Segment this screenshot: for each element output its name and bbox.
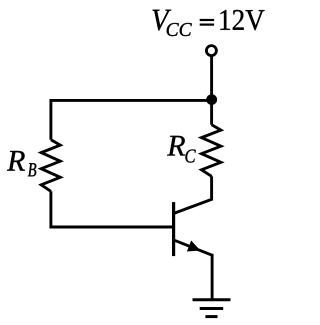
- transistor Q1 emitter arrow: [187, 241, 200, 252]
- resistor RB: [41, 140, 60, 192]
- wire RB bottom to base: [51, 191, 172, 227]
- label RC: [167, 136, 196, 163]
- resistor RC: [202, 125, 221, 177]
- wire RC bottom to collector: [175, 176, 212, 213]
- node (junction dot): [206, 94, 217, 105]
- transistor Q1 emitter: [175, 240, 213, 255]
- wire terminal to node: [210, 56, 213, 100]
- terminal Vcc (open circle): [206, 46, 216, 56]
- wire top horizontal and left vertical: [51, 100, 212, 139]
- wire node to RC: [210, 100, 213, 125]
- wire emitter to ground: [211, 254, 214, 300]
- ground: [193, 300, 231, 317]
- label RB: [7, 151, 36, 176]
- transistor Q1 base bar: [172, 202, 175, 256]
- label Vcc = 12V: [153, 10, 265, 36]
